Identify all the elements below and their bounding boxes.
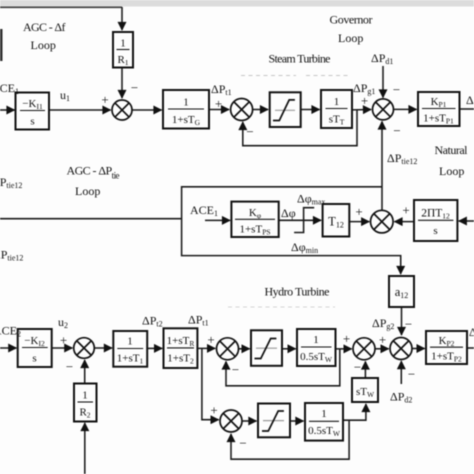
- svg-text:u2: u2: [58, 315, 68, 330]
- svg-text:−: −: [232, 362, 239, 377]
- svg-text:0.5sTW: 0.5sTW: [300, 351, 333, 364]
- svg-text:ACE1: ACE1: [190, 203, 218, 218]
- svg-text:−: −: [246, 124, 253, 139]
- svg-text:u1: u1: [60, 88, 70, 103]
- svg-text:+: +: [355, 204, 362, 219]
- svg-text:Governor: Governor: [330, 13, 373, 27]
- svg-text:1: 1: [313, 334, 319, 346]
- svg-text:R1: R1: [117, 54, 128, 67]
- svg-text:Hydro Turbine: Hydro Turbine: [265, 285, 330, 299]
- svg-text:Loop: Loop: [338, 31, 363, 45]
- svg-text:1+sT2: 1+sT2: [167, 353, 194, 366]
- svg-text:Δf1: Δf1: [466, 93, 474, 108]
- svg-text:KP1: KP1: [431, 96, 447, 109]
- svg-text:ΔPd1: ΔPd1: [371, 51, 393, 66]
- svg-text:ACE2: ACE2: [0, 324, 21, 339]
- svg-text:ACE1: ACE1: [0, 81, 19, 96]
- svg-text:1: 1: [183, 97, 189, 109]
- svg-text:−: −: [354, 360, 361, 375]
- svg-text:1: 1: [120, 38, 126, 50]
- svg-text:sTT: sTT: [329, 114, 345, 127]
- svg-text:+: +: [402, 203, 409, 218]
- svg-text:ΔPt2: ΔPt2: [142, 314, 163, 329]
- svg-text:−: −: [66, 359, 73, 374]
- svg-text:−: −: [393, 123, 400, 138]
- svg-text:Δφmin: Δφmin: [291, 240, 318, 255]
- svg-text:1+sTR: 1+sTR: [167, 335, 195, 348]
- svg-text:+: +: [207, 332, 214, 347]
- svg-text:Loop: Loop: [439, 164, 464, 178]
- svg-text:−: −: [408, 367, 415, 382]
- svg-text:ΔPd2: ΔPd2: [390, 390, 412, 405]
- svg-text:AGC - Δf: AGC - Δf: [23, 20, 66, 34]
- svg-text:−: −: [393, 82, 400, 97]
- svg-text:Steam Turbine: Steam Turbine: [269, 52, 331, 66]
- svg-text:+: +: [343, 331, 350, 346]
- svg-text:R2: R2: [79, 407, 90, 420]
- svg-text:−KI1: −KI1: [22, 98, 43, 111]
- svg-text:1+sTG: 1+sTG: [172, 114, 201, 127]
- svg-text:+: +: [101, 92, 108, 107]
- svg-text:+: +: [215, 96, 222, 111]
- svg-text:Loop: Loop: [75, 184, 100, 198]
- svg-text:+: +: [210, 403, 217, 418]
- svg-text:−KI2: −KI2: [24, 335, 45, 348]
- svg-text:AGC - ΔPtie: AGC - ΔPtie: [67, 164, 120, 181]
- svg-text:ΔPtie12: ΔPtie12: [0, 175, 22, 190]
- svg-text:ΔPt1: ΔPt1: [211, 82, 232, 97]
- svg-text:1+sTPS: 1+sTPS: [239, 224, 270, 237]
- svg-text:1: 1: [127, 336, 133, 348]
- svg-text:s: s: [32, 353, 36, 365]
- svg-text:−: −: [239, 436, 246, 451]
- svg-text:s: s: [433, 225, 437, 237]
- svg-text:s: s: [30, 116, 34, 128]
- svg-text:ΔPt1: ΔPt1: [188, 313, 209, 328]
- svg-text:−: −: [131, 80, 138, 95]
- svg-text:1+sT1: 1+sT1: [117, 353, 144, 366]
- svg-text:+: +: [379, 332, 386, 347]
- svg-text:Natural: Natural: [435, 143, 469, 157]
- svg-text:Δφ: Δφ: [281, 206, 296, 220]
- svg-text:Loop: Loop: [31, 38, 56, 52]
- svg-text:a12: a12: [395, 285, 409, 300]
- svg-text:−: −: [405, 317, 412, 332]
- svg-text:ΔPtie12: ΔPtie12: [387, 151, 417, 166]
- svg-text:KP2: KP2: [439, 335, 455, 348]
- svg-text:2ΠT12: 2ΠT12: [421, 208, 450, 221]
- svg-text:1+sTP2: 1+sTP2: [431, 351, 462, 364]
- svg-text:+: +: [361, 93, 368, 108]
- svg-text:sTW: sTW: [356, 386, 375, 399]
- svg-text:1: 1: [82, 390, 88, 402]
- svg-text:0.5sTW: 0.5sTW: [308, 425, 341, 438]
- svg-text:Δf2: Δf2: [469, 325, 474, 340]
- svg-text:Kφ: Kφ: [249, 207, 262, 220]
- svg-text:ΔPg2: ΔPg2: [372, 316, 394, 331]
- svg-text:1: 1: [321, 408, 327, 420]
- svg-text:ΔPtie12: ΔPtie12: [0, 248, 23, 263]
- svg-text:T12: T12: [328, 215, 344, 230]
- svg-text:1: 1: [334, 96, 340, 108]
- svg-text:1+sTP1: 1+sTP1: [423, 113, 454, 126]
- svg-text:Δφmax: Δφmax: [297, 192, 325, 207]
- svg-text:+: +: [60, 333, 67, 348]
